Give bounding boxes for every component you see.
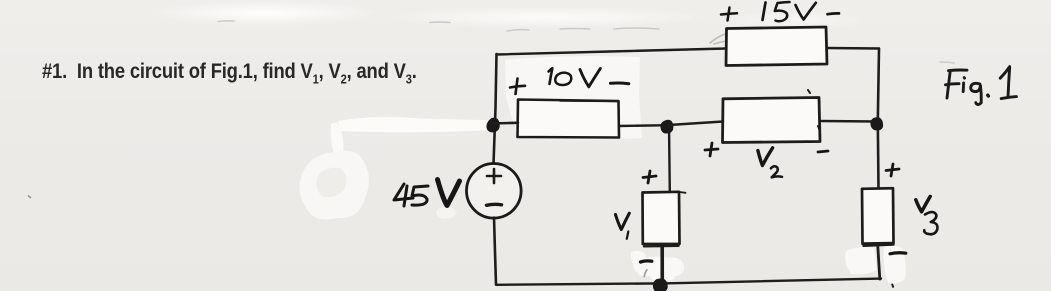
problem text — [42, 59, 417, 86]
wire: node B to V2 — [669, 122, 723, 126]
gray tick inside white-out — [644, 270, 647, 277]
label V3 plus — [886, 164, 899, 176]
label V3 — [916, 196, 930, 211]
node D (bottom junction) — [654, 279, 667, 291]
wire: V2 to node C — [820, 120, 878, 123]
white-out at V3 bottom right lump — [884, 245, 906, 283]
resistor V3 — [862, 188, 894, 243]
white-out band over erased wire — [338, 117, 494, 132]
white-out drip — [331, 122, 344, 156]
V3 bottom edge retrace — [864, 245, 894, 246]
label + V2 - — [705, 143, 828, 177]
wire: source to bottom — [494, 218, 496, 285]
V1 bottom edge retrace — [644, 245, 679, 248]
wire: right vertical — [878, 49, 879, 189]
wire: V1 to bottom — [660, 247, 664, 282]
V1 top-right overshoot tick — [680, 191, 686, 194]
wire: 15V right to corner — [827, 47, 879, 50]
white-out blob (eraser smudge) — [299, 151, 369, 220]
wire: V3 to bottom — [878, 246, 880, 279]
resistor 10V — [518, 100, 620, 138]
wire: top horizontal — [497, 49, 727, 55]
speck below V3 — [891, 285, 894, 287]
resistor V1 — [643, 192, 680, 244]
node A (left junction) — [487, 118, 499, 131]
wire: node B to V1 — [668, 125, 671, 192]
label V1 plus — [643, 171, 656, 183]
node B (middle junction) — [661, 121, 673, 133]
faint scanner streaks top — [29, 21, 955, 198]
tick marks near V2 — [808, 90, 820, 131]
node C (right junction) — [871, 118, 882, 130]
Fig.1 label — [946, 67, 1017, 105]
45V label — [394, 180, 460, 207]
source U1 45V — [467, 164, 522, 219]
wire: node A to 10V — [491, 122, 518, 125]
resistor 15V — [726, 27, 827, 66]
white-out dab under 45V — [436, 207, 456, 219]
white-out at V1 bottom — [631, 251, 684, 282]
white-out at V3 bottom left lump — [845, 247, 877, 275]
label V1 minus — [641, 261, 652, 262]
label V3 minus — [890, 253, 906, 254]
source minus — [487, 203, 502, 207]
source plus — [487, 169, 501, 183]
wire: 10V to node B — [619, 124, 669, 127]
label + 15V - — [721, 2, 839, 21]
label V1 — [616, 213, 630, 229]
white-out behind 10V label — [505, 56, 642, 140]
label + 10V - — [510, 68, 629, 94]
wire: bottom horizontal — [496, 279, 881, 285]
resistor V2 — [723, 98, 821, 143]
wire: top-left vertical — [494, 54, 497, 164]
